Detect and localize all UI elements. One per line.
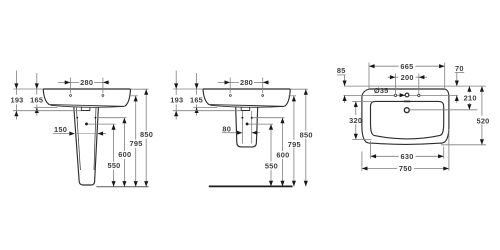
dimension 750 extension lines: [361, 152, 363, 171]
view 2 basin left edge: [203, 89, 209, 105]
dimension 80 line: [222, 132, 237, 134]
dimension 193 arrows: [14, 83, 18, 89]
pedestal fixing hole left: [76, 117, 78, 119]
dimension 550 line: [270, 124, 272, 162]
view 2 850 reference line: [290, 88, 308, 90]
dimension 630 line: [371, 155, 399, 157]
semi-pedestal outline: [236, 107, 258, 147]
dimension 165 line: [196, 73, 198, 89]
view 2 tap hole left: [229, 94, 231, 96]
svg-text:150: 150: [54, 125, 67, 134]
semi-pedestal fixing hole right: [251, 117, 253, 119]
front edge reference line: [441, 144, 486, 146]
dimension 750 arrows: [362, 166, 368, 170]
svg-text:550: 550: [107, 161, 120, 170]
165 reference line: [194, 106, 218, 108]
svg-text:85: 85: [337, 66, 346, 75]
dimension 210 arrows: [467, 86, 471, 92]
dimension 280 extension lines: [69, 78, 71, 94]
svg-text:850: 850: [300, 130, 313, 139]
dimension 210 line: [468, 86, 470, 92]
dimension 320 line: [355, 101, 357, 115]
dimension 200 arrows: [390, 75, 396, 79]
svg-text:630: 630: [401, 152, 414, 161]
pedestal outline: [74, 107, 99, 185]
dimension 70 arrows: [455, 81, 459, 87]
dimension 600 line: [282, 118, 284, 151]
dimension 600 line: [123, 118, 125, 151]
dimension 165 arrows: [195, 83, 199, 89]
view 2 basin outline: [203, 88, 290, 90]
dimension 165 arrows: [35, 83, 39, 89]
dimension 280 line: [58, 81, 79, 83]
pedestal inner contour right: [94, 107, 96, 170]
view 2 basin right edge: [284, 89, 290, 106]
dimension 665 line: [369, 65, 399, 67]
diameter 35 leader arrow: [400, 93, 406, 97]
view 2 795 reference line: [288, 95, 296, 97]
view 1 basin outline: [43, 88, 130, 90]
pedestal inner contour left: [76, 107, 80, 170]
svg-text:850: 850: [140, 130, 153, 139]
view 1 basin right edge: [125, 89, 131, 106]
view 1 basin underside upper line: [49, 105, 124, 107]
dimension 550 line: [113, 124, 115, 162]
view 2 600 reference line: [253, 117, 285, 119]
plan inner bowl outline: [371, 101, 444, 138]
tap hole row line: [344, 94, 458, 96]
view 2 top reference line: [173, 88, 203, 90]
svg-text:750: 750: [399, 164, 412, 173]
tap hole left: [394, 94, 396, 96]
dimension 850 line: [145, 89, 147, 131]
dimension 520 line: [481, 86, 483, 116]
drain pipe right line: [251, 111, 253, 144]
dimension 795 line: [293, 96, 295, 140]
view 2 drain boss step: [241, 107, 250, 111]
tap hole right: [418, 94, 420, 96]
svg-text:193: 193: [10, 95, 23, 104]
193 reference line: [13, 110, 81, 112]
dimension 280 arrows: [225, 80, 231, 84]
view 2 550 reference line: [249, 123, 273, 125]
view 2 basin underside lower line: [210, 105, 284, 107]
svg-text:600: 600: [118, 150, 131, 159]
dimension 193 line: [15, 71, 17, 89]
bowl bottom reference line: [352, 138, 371, 140]
view 2 tap hole right: [262, 94, 264, 96]
dimension 70 line: [456, 73, 458, 87]
dimension 280 arrows: [65, 80, 71, 84]
overflow reference line: [409, 109, 477, 111]
dimension 80 arrows: [237, 131, 243, 135]
view 1 tap hole left: [70, 94, 72, 96]
plan outer outline: [362, 89, 449, 144]
wall line: [344, 85, 486, 87]
165 reference line: [34, 106, 58, 108]
dimension 193 line: [175, 71, 177, 89]
dimension 150 line: [53, 133, 69, 135]
dimension 665 extension lines: [368, 63, 370, 90]
dimension 150 arrows: [69, 132, 75, 136]
tap hole centre: [405, 93, 409, 97]
svg-text:280: 280: [240, 78, 253, 87]
550 reference line: [88, 123, 115, 125]
view 1 tap hole right: [102, 94, 104, 96]
svg-text:193: 193: [170, 95, 183, 104]
svg-text:280: 280: [80, 78, 93, 87]
floor line view 1: [96, 186, 148, 188]
dimension 200 line: [388, 76, 399, 78]
view 1 drain boss step: [81, 107, 90, 111]
view 1 basin left edge: [43, 89, 49, 105]
svg-text:600: 600: [276, 151, 289, 160]
bowl top reference line: [352, 100, 372, 102]
dimension 520 arrows: [480, 86, 484, 92]
193 reference line: [173, 110, 241, 112]
dimension 165 line: [36, 73, 38, 89]
view 1 basin underside lower line: [50, 105, 124, 107]
pedestal waste hole: [85, 122, 88, 125]
svg-text:165: 165: [30, 95, 43, 104]
svg-text:320: 320: [349, 116, 362, 125]
dimension 320 arrows: [354, 101, 358, 107]
850 reference line: [131, 88, 149, 90]
dimension 280 line: [218, 81, 239, 83]
svg-text:665: 665: [400, 62, 413, 71]
svg-text:520: 520: [476, 116, 489, 125]
overflow slot on bowl edge: [404, 100, 410, 102]
dimension 200 extension lines: [395, 74, 397, 95]
overflow hole: [404, 108, 409, 113]
svg-text:70: 70: [455, 64, 464, 73]
dimension 665 arrows: [369, 64, 375, 68]
svg-text:165: 165: [190, 95, 203, 104]
dimension 750 line: [362, 168, 397, 170]
svg-text:200: 200: [401, 73, 414, 82]
dimension 85 line: [344, 75, 346, 86]
view 2 basin underside upper line: [209, 105, 284, 107]
pedestal fixing hole right: [95, 117, 97, 119]
semi-pedestal waste hole: [246, 122, 249, 125]
dimension 193 arrows: [174, 83, 178, 89]
dimension 630 extension lines: [370, 141, 372, 159]
svg-text:550: 550: [265, 161, 278, 170]
795 reference line: [129, 95, 138, 97]
svg-text:80: 80: [222, 124, 231, 133]
drain pipe left line: [241, 111, 243, 144]
svg-text:210: 210: [464, 93, 477, 102]
floor line view 2: [209, 185, 293, 187]
dimension 85 arrows: [343, 81, 347, 87]
svg-text:Ø35: Ø35: [374, 86, 389, 95]
600 reference line: [96, 117, 126, 119]
svg-text:795: 795: [288, 140, 301, 149]
view 1 top reference line: [14, 88, 44, 90]
semi-pedestal fixing hole left: [241, 117, 243, 119]
svg-text:795: 795: [130, 139, 143, 148]
dimension 850 line: [305, 89, 307, 131]
dimension 795 line: [135, 96, 137, 140]
dimension 280 extension lines: [229, 78, 231, 94]
dimension 630 arrows: [371, 154, 377, 158]
